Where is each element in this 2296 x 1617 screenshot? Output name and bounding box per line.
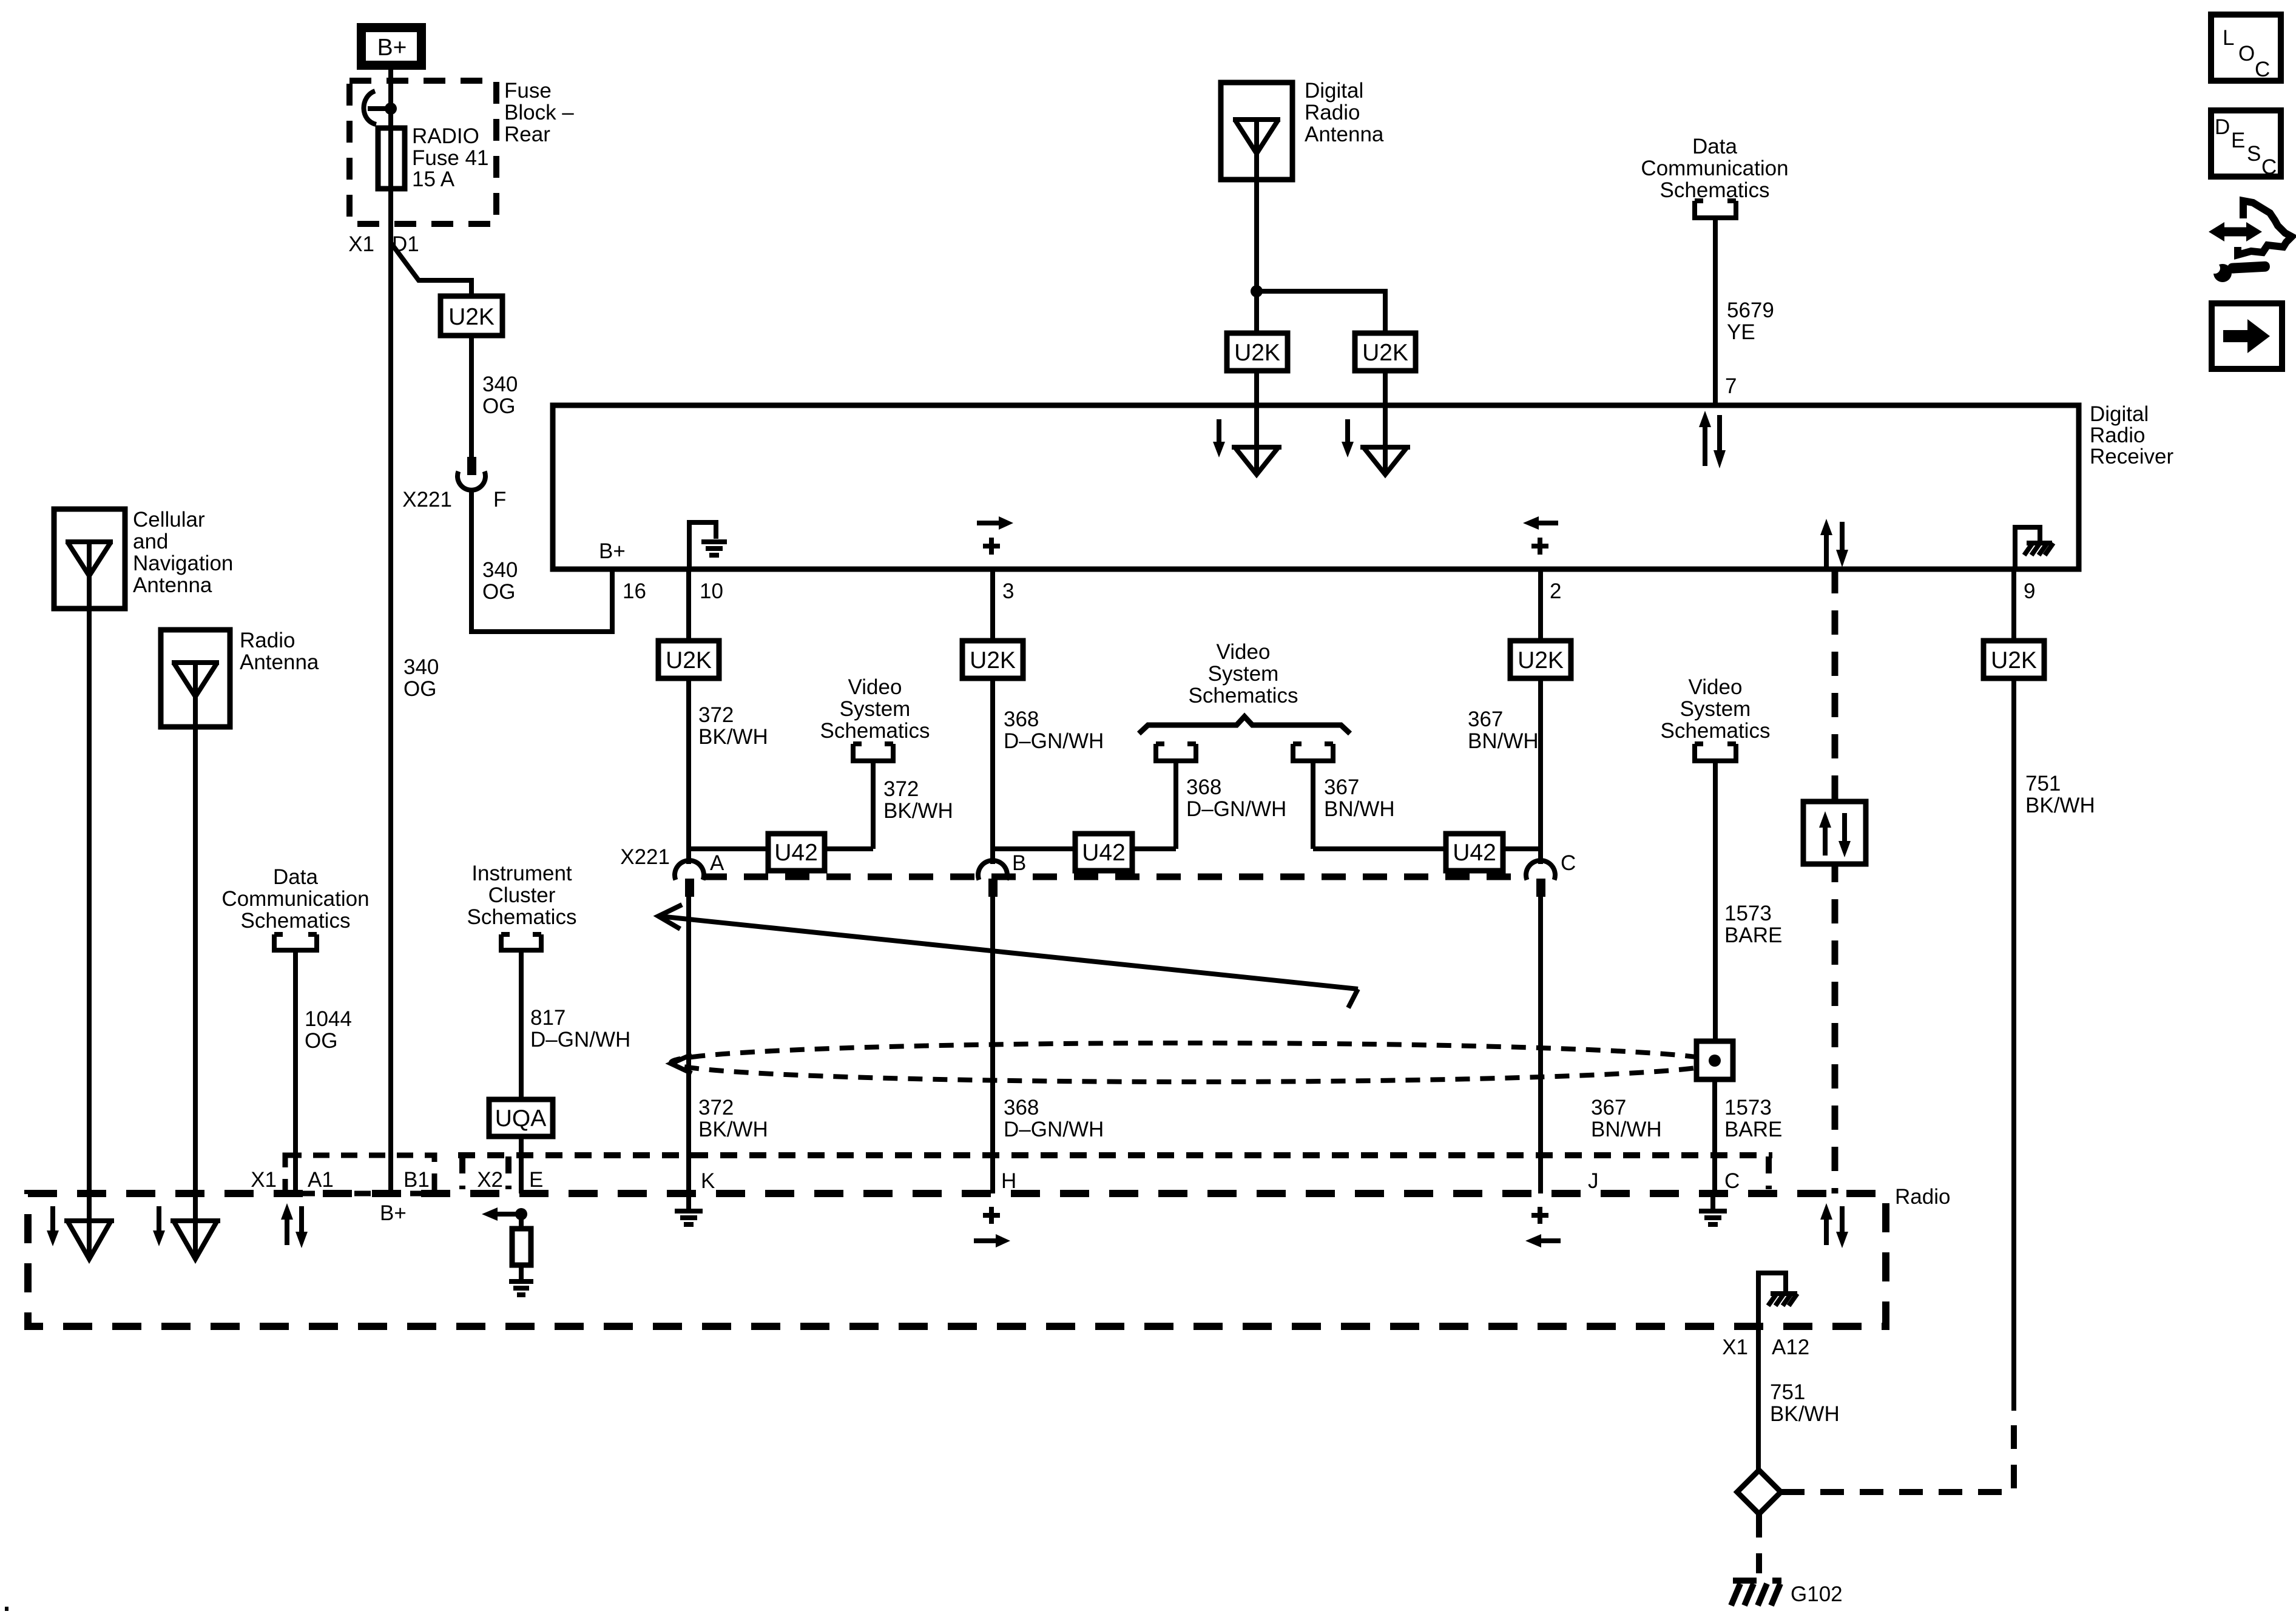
note Video System Schematics right bbox=[1661, 675, 1771, 743]
svg-text:BN/WH: BN/WH bbox=[1591, 1118, 1662, 1141]
bracket video mid left bbox=[1156, 744, 1196, 761]
arrow and plus at pin 2 bbox=[1523, 516, 1558, 555]
wire pin 2 to U2K bbox=[1538, 569, 1543, 641]
wire B+ bus to radio B1 bbox=[388, 243, 393, 1193]
svg-text:Digital: Digital bbox=[1305, 79, 1363, 103]
svg-text:Digital: Digital bbox=[2090, 402, 2149, 426]
resistor radio internal bbox=[512, 1214, 531, 1280]
wire B+ to fuse bbox=[388, 70, 393, 128]
svg-text:A12: A12 bbox=[1772, 1335, 1809, 1359]
svg-text:System: System bbox=[1680, 697, 1751, 721]
bracket instrument cluster bbox=[501, 934, 541, 950]
Digital Radio Receiver box bbox=[553, 405, 2079, 569]
svg-text:J: J bbox=[1588, 1169, 1599, 1193]
svg-text:Radio: Radio bbox=[240, 629, 295, 652]
label 751 BK/WH at A12 bbox=[1770, 1380, 1840, 1426]
digital radio antenna bbox=[1221, 83, 1292, 180]
wire 1573 BARE shield bbox=[1713, 761, 1718, 1041]
svg-text:C: C bbox=[2261, 155, 2277, 179]
svg-text:K: K bbox=[701, 1169, 715, 1193]
svg-text:U42: U42 bbox=[1453, 840, 1496, 866]
svg-text:X221: X221 bbox=[620, 845, 670, 869]
wire antenna branch to second U2K bbox=[1257, 291, 1385, 333]
wire U42 tap pin3 branch bbox=[993, 846, 1176, 851]
wire X221 F to pin 16 bbox=[471, 489, 612, 632]
svg-text:and: and bbox=[133, 530, 168, 553]
label 367 BN/WH branch bbox=[1324, 775, 1395, 821]
connector X221 C bbox=[1526, 860, 1555, 897]
svg-text:9: 9 bbox=[2024, 579, 2035, 603]
junction dot antenna branch bbox=[1251, 285, 1263, 297]
svg-text:D–GN/WH: D–GN/WH bbox=[1004, 729, 1104, 753]
svg-text:U2K: U2K bbox=[1234, 340, 1280, 366]
connector X1 A1 B1 dashed box bbox=[285, 1155, 434, 1193]
svg-text:Antenna: Antenna bbox=[1305, 123, 1384, 146]
wire D1 branch to U2K bbox=[391, 243, 471, 296]
svg-text:X1: X1 bbox=[1722, 1335, 1748, 1359]
label 372 BK/WH branch bbox=[883, 777, 953, 823]
label Radio Antenna bbox=[240, 629, 319, 674]
svg-text:Radio: Radio bbox=[1305, 101, 1360, 124]
svg-text:D: D bbox=[2215, 115, 2230, 139]
svg-text:Cellular: Cellular bbox=[133, 508, 205, 532]
fuse clip hook bbox=[363, 91, 391, 124]
bracket data comm top bbox=[1695, 201, 1736, 218]
wire U2K to receiver ant1 bbox=[1254, 371, 1259, 405]
connector label X1 D1 bbox=[348, 232, 419, 256]
label 1044 OG bbox=[305, 1007, 352, 1053]
svg-text:16: 16 bbox=[623, 579, 646, 603]
svg-text:Instrument: Instrument bbox=[471, 862, 572, 885]
serial data dashed wire bbox=[1832, 569, 1838, 1193]
option code UQA bbox=[489, 1099, 553, 1136]
svg-text:U2K: U2K bbox=[970, 647, 1016, 673]
wire UQA to radio E bbox=[519, 1136, 524, 1193]
svg-text:340: 340 bbox=[482, 558, 518, 582]
svg-text:U42: U42 bbox=[1082, 840, 1126, 866]
svg-text:Schematics: Schematics bbox=[1661, 719, 1771, 743]
svg-text:372: 372 bbox=[883, 777, 919, 801]
splice diamond bbox=[1737, 1470, 1781, 1514]
svg-text:B+: B+ bbox=[377, 35, 407, 61]
svg-text:340: 340 bbox=[482, 373, 518, 396]
antenna input symbol 1 in receiver bbox=[1213, 405, 1281, 474]
svg-text:OG: OG bbox=[305, 1029, 337, 1053]
label 340 OG lower bbox=[403, 655, 439, 701]
svg-text:751: 751 bbox=[2025, 772, 2061, 795]
antenna input radio antenna in radio bbox=[153, 1193, 220, 1259]
connector X221 B bbox=[978, 860, 1007, 897]
ground radio internal E branch bbox=[509, 1281, 533, 1295]
svg-text:Data: Data bbox=[273, 865, 318, 889]
connector X221 A bbox=[675, 860, 704, 897]
svg-text:1044: 1044 bbox=[305, 1007, 352, 1031]
cellular and navigation antenna bbox=[54, 509, 125, 609]
svg-text:367: 367 bbox=[1591, 1096, 1626, 1119]
note Data Communication Schematics left bbox=[221, 865, 369, 933]
connector X221 F bbox=[458, 457, 485, 490]
svg-text:X1: X1 bbox=[348, 232, 374, 256]
svg-text:U2K: U2K bbox=[1991, 647, 2037, 673]
svg-text:368: 368 bbox=[1004, 1096, 1039, 1119]
svg-text:System: System bbox=[840, 697, 911, 721]
svg-text:BN/WH: BN/WH bbox=[1468, 729, 1539, 753]
ground at C bbox=[1699, 1193, 1727, 1224]
wire U2K to X221 C bbox=[1538, 678, 1543, 864]
label 751 BK/WH pin 9 bbox=[2025, 772, 2095, 817]
label X221 A bbox=[620, 845, 724, 875]
svg-text:Antenna: Antenna bbox=[133, 573, 212, 597]
wire radio antenna to radio bbox=[193, 727, 198, 1193]
svg-text:5679: 5679 bbox=[1727, 299, 1774, 322]
power symbol B+ battery feed bbox=[362, 28, 422, 66]
bracket video left bbox=[853, 744, 893, 761]
pin labels K H J C bbox=[701, 1169, 1740, 1193]
svg-text:Radio: Radio bbox=[1895, 1185, 1950, 1209]
wire U2K to X221 B bbox=[990, 678, 995, 864]
wire 5679 YE bbox=[1713, 218, 1718, 405]
svg-text:Receiver: Receiver bbox=[2090, 445, 2173, 468]
label X221 F bbox=[402, 488, 506, 511]
chassis ground at pin 9 in receiver bbox=[2015, 527, 2053, 569]
dashed wire splice to 751 return bbox=[1781, 1411, 2014, 1492]
label Cellular and Navigation Antenna bbox=[133, 508, 233, 597]
svg-text:U2K: U2K bbox=[448, 304, 495, 330]
svg-text:U2K: U2K bbox=[1518, 647, 1564, 673]
svg-text:X221: X221 bbox=[402, 488, 452, 511]
label 340 OG upper bbox=[482, 373, 518, 418]
svg-text:S: S bbox=[2247, 142, 2261, 166]
svg-text:Schematics: Schematics bbox=[820, 719, 930, 743]
wire cellular antenna to radio bbox=[87, 609, 92, 1193]
option code U2K pin 10 bbox=[658, 641, 719, 678]
svg-text:Rear: Rear bbox=[504, 123, 550, 146]
svg-text:L: L bbox=[2223, 26, 2234, 50]
wire fuse to X1 D1 bbox=[388, 189, 393, 244]
svg-text:368: 368 bbox=[1004, 707, 1039, 731]
svg-text:BK/WH: BK/WH bbox=[2025, 794, 2095, 817]
svg-text:15 A: 15 A bbox=[412, 167, 455, 191]
svg-text:System: System bbox=[1208, 662, 1279, 686]
brace video middle bbox=[1139, 717, 1350, 734]
svg-text:C: C bbox=[1561, 851, 1576, 875]
wire bracket mid left down bbox=[1173, 761, 1178, 849]
svg-text:U2K: U2K bbox=[666, 647, 712, 673]
svg-text:G102: G102 bbox=[1791, 1582, 1843, 1606]
svg-text:Schematics: Schematics bbox=[241, 909, 351, 933]
wire pin 3 to U2K bbox=[990, 569, 995, 641]
wire pin 9 to U2K bbox=[2011, 569, 2016, 641]
label 1573 BARE lower bbox=[1724, 1096, 1782, 1141]
bracket data comm left bbox=[274, 934, 317, 950]
svg-text:367: 367 bbox=[1324, 775, 1359, 799]
svg-text:7: 7 bbox=[1725, 374, 1737, 398]
icon arrow next bbox=[2212, 303, 2282, 369]
label 372 BK/WH lower bbox=[698, 1096, 768, 1141]
svg-text:E: E bbox=[529, 1168, 543, 1192]
svg-text:BK/WH: BK/WH bbox=[883, 799, 953, 823]
bidirectional arrows at serial in receiver bbox=[1820, 519, 1848, 567]
fuse RADIO Fuse 41 15 A bbox=[378, 128, 405, 189]
svg-text:751: 751 bbox=[1770, 1380, 1805, 1404]
note Instrument Cluster Schematics bbox=[467, 862, 577, 929]
Radio dashed box bbox=[28, 1193, 1886, 1326]
pin labels X1 A1 B1 bbox=[251, 1168, 430, 1192]
bidirectional arrows at A1 bbox=[281, 1203, 308, 1248]
plus and arrow at J bbox=[1525, 1207, 1561, 1247]
dashed wire splice to G102 bbox=[1756, 1514, 1762, 1573]
svg-text:BK/WH: BK/WH bbox=[1770, 1402, 1840, 1426]
svg-text:A: A bbox=[710, 851, 724, 875]
svg-text:Radio: Radio bbox=[2090, 424, 2145, 447]
option code U2K pin 9 bbox=[1984, 641, 2044, 678]
bidirectional arrows at serial data in radio bbox=[1820, 1203, 1848, 1248]
label RADIO Fuse 41 15 A bbox=[412, 124, 488, 191]
svg-text:BK/WH: BK/WH bbox=[698, 1118, 768, 1141]
label 368 D-GN/WH lower bbox=[1004, 1096, 1104, 1141]
svg-text:Cluster: Cluster bbox=[488, 883, 556, 907]
svg-text:Fuse: Fuse bbox=[504, 79, 552, 103]
ground at pin 10 in receiver bbox=[689, 522, 727, 569]
svg-text:O: O bbox=[2238, 42, 2255, 66]
label 367 BN/WH lower bbox=[1591, 1096, 1662, 1141]
chassis ground at A12 in radio bbox=[1758, 1273, 1797, 1326]
svg-text:C: C bbox=[2255, 58, 2270, 81]
svg-text:Video: Video bbox=[1689, 675, 1743, 699]
chassis ground G102 bbox=[1731, 1575, 1784, 1605]
shield termination box bbox=[1697, 1041, 1733, 1079]
icon DESC bbox=[2211, 110, 2281, 179]
svg-text:Video: Video bbox=[848, 675, 902, 699]
svg-text:1573: 1573 bbox=[1724, 1096, 1772, 1119]
label Digital Radio Receiver bbox=[2090, 402, 2173, 468]
wire A12 to splice bbox=[1756, 1326, 1761, 1470]
pointer line shield drain bbox=[658, 905, 1358, 1008]
dashed line X221 row bbox=[703, 874, 1527, 880]
svg-text:F: F bbox=[493, 488, 506, 511]
svg-text:B+: B+ bbox=[380, 1201, 407, 1225]
svg-text:10: 10 bbox=[700, 579, 723, 603]
svg-text:Navigation: Navigation bbox=[133, 552, 233, 575]
option code U2K antenna 2 bbox=[1355, 333, 1416, 371]
svg-text:X1: X1 bbox=[251, 1168, 277, 1192]
svg-text:OG: OG bbox=[482, 394, 515, 418]
label 372 BK/WH upper bbox=[698, 703, 768, 749]
svg-text:368: 368 bbox=[1186, 775, 1221, 799]
svg-text:367: 367 bbox=[1468, 707, 1503, 731]
bidirectional arrows box serial data bbox=[1803, 802, 1866, 864]
svg-text:X2: X2 bbox=[477, 1168, 503, 1192]
svg-text:H: H bbox=[1001, 1169, 1016, 1193]
wire pin 10 to U2K bbox=[686, 569, 691, 641]
option code U42 3 bbox=[1446, 834, 1503, 871]
svg-text:D–GN/WH: D–GN/WH bbox=[530, 1028, 630, 1052]
option code U2K fuse branch bbox=[441, 296, 502, 336]
serial data arrow at E with junction bbox=[482, 1207, 527, 1221]
option code U2K pin 3 bbox=[962, 641, 1023, 678]
svg-text:YE: YE bbox=[1727, 320, 1755, 344]
svg-text:Schematics: Schematics bbox=[1189, 684, 1298, 707]
svg-text:U2K: U2K bbox=[1362, 340, 1408, 366]
Fuse Block - Rear dashed box bbox=[349, 81, 496, 224]
ground at K bbox=[675, 1193, 703, 1224]
plus and arrow at H bbox=[974, 1207, 1010, 1247]
svg-text:3: 3 bbox=[1002, 579, 1014, 603]
note Video System Schematics middle bbox=[1189, 640, 1298, 707]
label 817 D-GN/WH bbox=[530, 1006, 630, 1052]
antenna input symbol 2 in receiver bbox=[1342, 405, 1410, 474]
wire U2K to X221 A bbox=[686, 678, 691, 864]
radio antenna bbox=[161, 630, 230, 727]
svg-text:340: 340 bbox=[403, 655, 439, 679]
svg-text:Communication: Communication bbox=[221, 887, 369, 911]
bidirectional arrows at pin 7 in receiver bbox=[1699, 411, 1726, 468]
svg-text:BK/WH: BK/WH bbox=[698, 725, 768, 749]
svg-text:A1: A1 bbox=[308, 1168, 334, 1192]
svg-text:C: C bbox=[1724, 1169, 1740, 1193]
wire C to radio J bbox=[1538, 897, 1543, 1193]
note Video System Schematics left bbox=[820, 675, 930, 743]
svg-text:BARE: BARE bbox=[1724, 1118, 1782, 1141]
svg-text:Block –: Block – bbox=[504, 101, 574, 124]
svg-text:372: 372 bbox=[698, 703, 734, 727]
label 368 D-GN/WH branch bbox=[1186, 775, 1286, 821]
svg-text:D–GN/WH: D–GN/WH bbox=[1004, 1118, 1104, 1141]
wire bracket mid right down bbox=[1311, 761, 1315, 849]
wire 751 BK/WH bbox=[2011, 678, 2016, 1411]
svg-text:UQA: UQA bbox=[495, 1106, 547, 1132]
wire U42 tap pin2 branch bbox=[1313, 846, 1541, 851]
svg-text:U42: U42 bbox=[774, 840, 818, 866]
shield ellipse twisted pair bbox=[671, 1043, 1717, 1082]
note Data Communication Schematics top bbox=[1641, 135, 1788, 202]
wire U42 tap pin10 branch bbox=[689, 846, 873, 851]
label 367 BN/WH upper bbox=[1468, 707, 1539, 753]
wire 1044 OG to radio A1 bbox=[293, 950, 298, 1193]
label Fuse Block Rear bbox=[504, 79, 574, 146]
svg-text:Fuse 41: Fuse 41 bbox=[412, 146, 488, 170]
svg-text:BARE: BARE bbox=[1724, 923, 1782, 947]
label 1573 BARE upper bbox=[1724, 902, 1782, 947]
junction dot fuse feed bbox=[385, 103, 397, 115]
svg-text:B1: B1 bbox=[403, 1168, 430, 1192]
wire A to radio K bbox=[686, 897, 691, 1193]
icon LOC bbox=[2211, 15, 2281, 81]
svg-text:1573: 1573 bbox=[1724, 902, 1772, 925]
svg-text:B+: B+ bbox=[599, 539, 626, 563]
bracket video mid right bbox=[1293, 744, 1333, 761]
label 368 D-GN/WH upper bbox=[1004, 707, 1104, 753]
svg-text:Video: Video bbox=[1217, 640, 1271, 664]
svg-text:E: E bbox=[2231, 129, 2245, 152]
svg-text:D–GN/WH: D–GN/WH bbox=[1186, 797, 1286, 821]
option code U2K pin 2 bbox=[1510, 641, 1571, 678]
svg-text:2: 2 bbox=[1550, 579, 1561, 603]
wire B to radio H bbox=[990, 897, 995, 1193]
wire U2K to receiver ant2 bbox=[1383, 371, 1388, 405]
svg-text:OG: OG bbox=[403, 677, 436, 701]
connector label X1 A12 bbox=[1722, 1335, 1809, 1359]
page mark bbox=[5, 1607, 8, 1611]
svg-text:Schematics: Schematics bbox=[467, 905, 577, 929]
icon service tool bbox=[2209, 201, 2292, 282]
svg-text:Schematics: Schematics bbox=[1660, 178, 1770, 202]
svg-text:Data: Data bbox=[1692, 135, 1737, 158]
label 5679 YE bbox=[1727, 299, 1774, 344]
wire bracket video left down bbox=[871, 761, 876, 849]
svg-text:Communication: Communication bbox=[1641, 157, 1788, 180]
option code U42 2 bbox=[1075, 834, 1132, 871]
arrow and plus at pin 3 bbox=[977, 516, 1013, 555]
pin labels X2 E bbox=[477, 1168, 543, 1192]
svg-text:OG: OG bbox=[482, 580, 515, 604]
strip X2 E dotted bbox=[458, 1155, 1772, 1189]
label 340 OG mid bbox=[482, 558, 518, 604]
svg-text:372: 372 bbox=[698, 1096, 734, 1119]
bracket video right bbox=[1695, 744, 1736, 761]
svg-text:BN/WH: BN/WH bbox=[1324, 797, 1395, 821]
option code U2K antenna 1 bbox=[1227, 333, 1288, 371]
wire shield box to radio C bbox=[1712, 1079, 1717, 1193]
wire U2K to X221 F bbox=[469, 336, 474, 457]
svg-text:Antenna: Antenna bbox=[240, 650, 319, 674]
label Digital Radio Antenna bbox=[1305, 79, 1384, 146]
wire 817 D-GN/WH bbox=[519, 950, 524, 1099]
svg-text:RADIO: RADIO bbox=[412, 124, 479, 148]
option code U42 1 bbox=[768, 834, 825, 871]
wire digital radio antenna bbox=[1254, 180, 1259, 333]
antenna input cellular in radio bbox=[47, 1193, 114, 1259]
svg-text:B: B bbox=[1012, 851, 1026, 875]
svg-text:817: 817 bbox=[530, 1006, 566, 1030]
